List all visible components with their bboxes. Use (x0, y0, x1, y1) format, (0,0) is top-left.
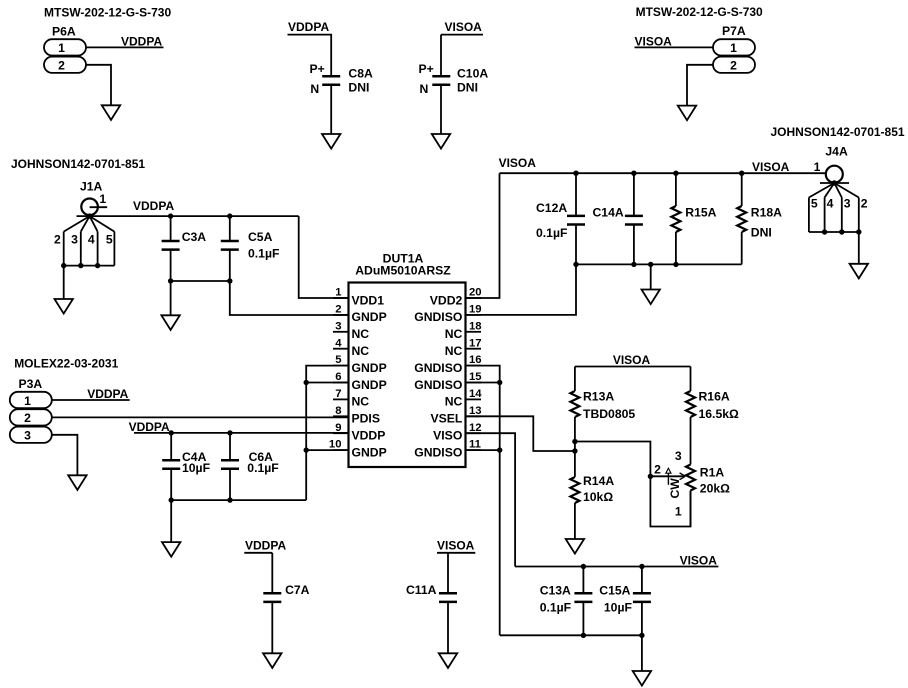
svg-text:JOHNSON142-0701-851: JOHNSON142-0701-851 (11, 157, 145, 171)
capacitor C4A (162, 460, 180, 469)
label J4A pin 4 (827, 197, 834, 211)
wire J1A stub pin5 (113, 232, 115, 266)
wire J4A fan pin2 (834, 183, 859, 198)
wire VISOA top rail (500, 172, 827, 174)
connector P3A part number label (14, 356, 118, 370)
wire P6A pin1 to VDDPA (86, 46, 164, 48)
svg-text:10: 10 (329, 439, 342, 451)
junction J1A (87, 213, 92, 218)
net label VDDPA at C7A (245, 539, 286, 553)
DUT1A pin 15 stub (466, 382, 482, 384)
wire P3A pin1 to VDDPA (52, 399, 130, 401)
svg-text:12: 12 (469, 422, 482, 434)
wire C5A top lead (229, 216, 231, 241)
wire VDDPA rail J1A to DUT (77, 215, 299, 217)
label DUT1A pin number 15 (469, 371, 482, 383)
net label VDDPA at C8A (288, 20, 329, 34)
label DUT1A pin number 16 (469, 354, 482, 366)
label DUT1A pin name NC pin 4 (352, 344, 370, 358)
connector J4A circle (826, 166, 843, 183)
ground at C10A (432, 134, 450, 149)
svg-text:R13A: R13A (583, 390, 614, 404)
DUT1A pin 11 stub (466, 449, 482, 451)
wire DUT pin11 GNDISO (466, 449, 500, 451)
connector J1A refdes (80, 180, 103, 194)
svg-text:2: 2 (335, 304, 341, 316)
wire VDDPA underline at C7A (244, 552, 272, 554)
label C10A refdes (457, 67, 488, 81)
connector P3A pin 3 (10, 427, 52, 443)
wire J4A bottom rail (809, 231, 859, 233)
label C7A refdes (285, 583, 310, 597)
svg-text:P+: P+ (419, 62, 434, 76)
DUT1A pin 16 stub (466, 365, 482, 367)
DUT1A pin 19 stub (466, 314, 482, 316)
ground at P3A (68, 475, 86, 490)
junction C14A bottom (631, 262, 636, 267)
label R1A pin 3 (675, 449, 682, 463)
junction GNDISO pin15 (497, 380, 502, 385)
junction C13A bottom (581, 633, 586, 638)
wire J1A stub pin2 (63, 232, 65, 266)
capacitor C3A (162, 241, 180, 250)
svg-text:17: 17 (469, 337, 482, 349)
svg-text:VISOA: VISOA (680, 554, 718, 568)
svg-text:VDDPA: VDDPA (121, 35, 162, 49)
label R18A DNI (751, 225, 772, 239)
svg-text:VISOA: VISOA (437, 539, 475, 553)
svg-text:PDIS: PDIS (352, 412, 380, 426)
ground at C3A (161, 315, 179, 330)
svg-text:GNDP: GNDP (352, 361, 387, 375)
wire C4A top lead (170, 433, 172, 460)
wire DUT pin6 GNDP (306, 382, 348, 384)
wire VISOA to P7A pin1 (635, 46, 714, 48)
connector J4A refdes (825, 144, 848, 158)
junction R15A top (673, 171, 678, 176)
label DUT1A pin number 4 (335, 337, 342, 349)
wire DUT pin12 VISO down (466, 433, 516, 566)
svg-text:DNI: DNI (457, 80, 478, 94)
net label VDDPA at P6A (121, 35, 162, 49)
label DUT1A pin name VDDP pin 9 (352, 429, 386, 443)
wire R13A top lead (574, 367, 576, 392)
DUT1A pin 14 stub (466, 398, 482, 400)
wire J4A fan pin4 (825, 183, 835, 198)
svg-text:P+: P+ (310, 62, 325, 76)
label R1A value (700, 481, 730, 495)
label C8A refdes (348, 67, 373, 81)
svg-text:GNDISO: GNDISO (414, 361, 462, 375)
capacitor C7A (263, 593, 281, 602)
connector P7A pin 2 (713, 57, 755, 73)
svg-text:16.5kΩ: 16.5kΩ (699, 407, 739, 421)
junction C3A bottom (168, 278, 173, 283)
label DUT1A pin name NC pin 17 (445, 344, 463, 358)
DUT1A pin 9 stub (333, 432, 349, 434)
label DUT1A pin name GNDP pin 5 (352, 361, 387, 375)
wire R13A bottom lead (574, 417, 576, 477)
connector P3A refdes (19, 377, 43, 391)
svg-text:R15A: R15A (685, 206, 716, 220)
label C14A refdes (593, 205, 624, 219)
wire VISOA divider rail (575, 366, 691, 368)
wire P7A pin2 to ground (687, 65, 713, 106)
svg-text:NC: NC (445, 344, 463, 358)
svg-text:3: 3 (675, 449, 682, 463)
junction C13A top (581, 564, 586, 569)
svg-text:R18A: R18A (751, 206, 782, 220)
wire GNDISO rail to ground (650, 264, 652, 289)
label DUT1A pin name VISO pin 12 (433, 429, 462, 443)
wire DUT pin10 GNDP (306, 449, 348, 451)
svg-text:C11A: C11A (406, 583, 437, 597)
svg-text:0.1µF: 0.1µF (540, 600, 571, 614)
svg-text:VDD1: VDD1 (352, 293, 385, 307)
ground at J1A (55, 299, 73, 314)
label R16A value (699, 407, 739, 421)
wire J1A to ground (63, 266, 65, 299)
net label VISOA at P7A (635, 35, 673, 49)
junction C15A bottom (639, 633, 644, 638)
junction J1A pin2 bottom (61, 263, 66, 268)
label DUT1A pin number 17 (469, 337, 482, 349)
junction R18A top (739, 171, 744, 176)
svg-text:NC: NC (352, 344, 370, 358)
capacitor C5A (221, 241, 239, 250)
DUT1A pin 4 stub (333, 348, 349, 350)
connector P7A part number label (636, 5, 763, 19)
junction C6A top (227, 430, 232, 435)
wire C15A bottom lead (641, 602, 643, 636)
svg-text:2: 2 (861, 197, 868, 211)
svg-text:VISO: VISO (433, 429, 462, 443)
svg-text:10kΩ: 10kΩ (583, 490, 613, 504)
label C3A refdes (182, 230, 207, 244)
ground at J4A (850, 264, 868, 279)
svg-text:VDDPA: VDDPA (288, 20, 329, 34)
wire J4A to ground (858, 232, 860, 264)
svg-text:R14A: R14A (583, 474, 614, 488)
wire J4A stub pin3 (841, 198, 843, 233)
svg-text:1: 1 (99, 192, 106, 206)
svg-text:7: 7 (335, 388, 341, 400)
junction VSEL node (572, 448, 577, 453)
ground at C11A (439, 653, 457, 668)
label DUT1A pin name GNDP pin 6 (352, 378, 387, 392)
label DUT1A pin number 18 (469, 320, 482, 332)
svg-text:4: 4 (827, 197, 834, 211)
label CW (668, 478, 682, 499)
label DUT1A pin number 3 (335, 320, 341, 332)
DUT1A pin 3 stub (333, 331, 349, 333)
svg-text:ADuM5010ARSZ: ADuM5010ARSZ (355, 264, 451, 278)
label J1A pin 5 (106, 232, 113, 246)
label R13A refdes (583, 390, 614, 404)
svg-text:1: 1 (675, 505, 682, 519)
label DUT1A pin number 19 (469, 304, 482, 316)
wire GNDP bottom rail (171, 499, 306, 501)
svg-text:NC: NC (352, 327, 370, 341)
IC DUT1A body (349, 283, 466, 468)
svg-text:GNDP: GNDP (352, 378, 387, 392)
wire P3A pin2 to DUT PDIS pin8 (52, 416, 349, 418)
svg-text:VDDPA: VDDPA (129, 420, 170, 434)
junction GNDP pin10 (304, 447, 309, 452)
label C6A value (247, 461, 278, 475)
resistor R14A (570, 477, 579, 503)
svg-text:3: 3 (24, 429, 31, 443)
svg-text:16: 16 (469, 354, 482, 366)
label DUT1A pin name NC pin 3 (352, 327, 370, 341)
net label VDDPA at J1A rail (133, 199, 174, 213)
label R1A pin 1 (675, 505, 682, 519)
wire R16A top lead (690, 367, 692, 392)
net label VISOA at bottom rail (680, 554, 718, 568)
svg-text:1: 1 (335, 287, 341, 299)
ground at C15A (633, 671, 651, 686)
svg-text:3: 3 (844, 197, 851, 211)
DUT1A pin 17 stub (466, 348, 482, 350)
label C10A plus (419, 62, 434, 76)
label DUT1A pin name VSEL pin 13 (430, 412, 462, 426)
label DUT1A pin number 13 (469, 405, 482, 417)
connector P3A pin 2 (10, 409, 52, 425)
connector P7A pin 1 (713, 39, 755, 55)
svg-text:2: 2 (654, 462, 661, 476)
junction J4A (832, 180, 837, 185)
wire C8A to ground (330, 85, 332, 134)
label R14A refdes (583, 474, 614, 488)
svg-text:VISOA: VISOA (499, 156, 537, 170)
svg-text:C14A: C14A (593, 205, 624, 219)
svg-text:VDDPA: VDDPA (87, 387, 128, 401)
wire R18A top lead (741, 173, 743, 206)
DUT1A pin 20 stub (466, 297, 482, 299)
wire C3A bottom lead (170, 249, 172, 281)
wire DUT pin13 VSEL to node (466, 416, 575, 451)
wire DUT pin5 GNDP down (306, 366, 348, 501)
wire C4A bottom lead (170, 469, 172, 501)
DUT1A pin 13 stub (466, 415, 482, 417)
net label VISOA at J4A (752, 160, 790, 174)
wire C12A bottom lead (575, 224, 577, 264)
capacitor C13A (574, 593, 592, 602)
svg-text:18: 18 (469, 320, 482, 332)
junction R15A bottom (673, 262, 678, 267)
label J1A pin 4 (88, 232, 95, 246)
junction R13A R16A node (572, 439, 577, 444)
wire J1A stub pin3 (80, 232, 82, 266)
label DUT1A pin name NC pin 14 (445, 395, 463, 409)
wire R1A wiper (650, 475, 684, 477)
junction C5A bottom (227, 278, 232, 283)
label C6A refdes (249, 450, 274, 464)
label DUT1A pin name NC pin 7 (352, 395, 370, 409)
junction C3A top (168, 213, 173, 218)
svg-text:MOLEX22-03-2031: MOLEX22-03-2031 (14, 356, 118, 370)
wire C7A to ground (271, 602, 273, 654)
label C5A value (248, 246, 279, 260)
label R18A refdes (751, 206, 782, 220)
svg-text:N: N (310, 82, 319, 96)
IC DUT1A part number (355, 264, 451, 278)
junction R1A wiper (648, 474, 653, 479)
svg-text:C13A: C13A (540, 584, 571, 598)
wire C14A top lead (633, 173, 635, 216)
connector J1A part number label (11, 157, 145, 171)
svg-text:P6A: P6A (52, 25, 76, 39)
label J1A pin 2 (54, 232, 61, 246)
wire GNDISO top rail (576, 263, 742, 265)
svg-text:VDDP: VDDP (352, 429, 386, 443)
svg-text:6: 6 (335, 371, 341, 383)
junction J1A pin3 bottom (78, 263, 83, 268)
label C8A minus (310, 82, 319, 96)
resistor R13A (570, 391, 579, 417)
label DUT1A pin number 12 (469, 422, 482, 434)
junction GNDISO pin11 (497, 447, 502, 452)
svg-text:1: 1 (58, 41, 65, 55)
junction J1A pin4 bottom (95, 263, 100, 268)
wire VISOA to C10A (440, 35, 442, 77)
junction J4A pin4 bottom (822, 229, 827, 234)
wire P3A pin3 to ground (52, 435, 78, 476)
label J4A pin 5 (811, 197, 818, 211)
ground at C8A (322, 134, 340, 149)
svg-text:GNDP: GNDP (352, 310, 387, 324)
net label VISOA at rail start (499, 156, 537, 170)
label DUT1A pin name GNDP pin 2 (352, 310, 387, 324)
junction C12A bottom (573, 262, 578, 267)
svg-text:5: 5 (106, 232, 113, 246)
net label VDDPA at P3A (87, 387, 128, 401)
label C12A refdes (536, 201, 567, 215)
label J1A pin 3 (71, 232, 78, 246)
svg-text:11: 11 (469, 439, 481, 451)
wire R13A node to wiper (575, 442, 651, 477)
svg-text:2: 2 (730, 59, 737, 73)
connector J4A part number label (771, 125, 905, 139)
label R16A refdes (699, 390, 730, 404)
svg-text:20: 20 (469, 287, 482, 299)
label DUT1A pin number 5 (335, 354, 341, 366)
label R15A refdes (685, 206, 716, 220)
capacitor C15A (633, 593, 651, 602)
wire DUT pin20 VDD2 to VISOA rail (466, 173, 500, 298)
wire C15A top lead (641, 567, 643, 594)
label C4A value (182, 461, 210, 475)
wire C13A bottom lead (582, 602, 584, 636)
wire J4A stub pin4 (824, 198, 826, 233)
svg-text:VISOA: VISOA (445, 20, 483, 34)
label DUT1A pin name GNDISO pin 15 (414, 378, 462, 392)
wire J4A fan pin3 (834, 183, 842, 198)
wire VISOA to C11A (447, 553, 449, 594)
capacitor C12A (567, 216, 585, 225)
label C12A value (536, 226, 567, 240)
label DUT1A pin number 20 (469, 287, 482, 299)
wire VDDPA to C7A (271, 553, 273, 594)
IC DUT1A refdes (383, 252, 424, 266)
wire J4A bottom bar (820, 182, 849, 184)
wire J4A stub pin5 (808, 198, 810, 233)
svg-text:14: 14 (469, 388, 482, 400)
DUT1A pin 10 stub (333, 449, 349, 451)
ground at P7A (678, 106, 696, 121)
junction C15A top (639, 564, 644, 569)
svg-text:MTSW-202-12-G-S-730: MTSW-202-12-G-S-730 (44, 6, 171, 20)
wire J1A fan pin3 (81, 216, 90, 232)
label DUT1A pin name GNDP pin 10 (352, 445, 387, 459)
wire VDDPA underline at C8A (288, 34, 333, 36)
ground at R14A (566, 539, 584, 554)
svg-text:5: 5 (335, 354, 341, 366)
wire J4A stub pin2 (858, 198, 860, 233)
ground at P6A (102, 105, 120, 120)
label DUT1A pin name GNDISO pin 16 (414, 361, 462, 375)
svg-text:C12A: C12A (536, 201, 567, 215)
label J4A pin 1 (814, 160, 821, 174)
label DUT1A pin number 9 (335, 422, 341, 434)
label DUT1A pin name GNDISO pin 11 (414, 445, 462, 459)
label DUT1A pin number 7 (335, 388, 341, 400)
svg-text:GNDISO: GNDISO (414, 378, 462, 392)
DUT1A pin 1 stub (333, 297, 349, 299)
label DUT1A pin name VDD2 pin 20 (430, 293, 463, 307)
label C13A value (540, 600, 571, 614)
label DUT1A pin number 8 (335, 405, 341, 417)
svg-text:20kΩ: 20kΩ (700, 481, 730, 495)
label R1A refdes (700, 465, 725, 479)
wire C5A bottom lead (229, 249, 231, 281)
svg-text:0.1µF: 0.1µF (536, 226, 567, 240)
capacitor C10A (432, 76, 450, 85)
wire C13A top lead (582, 567, 584, 594)
wire C6A top lead (229, 433, 231, 460)
DUT1A pin 5 stub (333, 365, 349, 367)
label C8A plus (310, 62, 325, 76)
wire R14A bottom lead (574, 503, 576, 539)
junction C6A bottom (227, 497, 232, 502)
wire J1A fan pin4 (90, 216, 98, 232)
CW direction arrow (666, 468, 671, 485)
label DUT1A pin number 14 (469, 388, 482, 400)
svg-text:C3A: C3A (182, 230, 207, 244)
net label VISOA at divider (613, 353, 651, 367)
wire C6A bottom lead (229, 469, 231, 501)
junction GNDP pin6 (304, 380, 309, 385)
label J4A pin 2 (861, 197, 868, 211)
label R14A value (583, 490, 613, 504)
wire DUT pin19 GNDISO to rail (466, 264, 577, 315)
svg-text:VISOA: VISOA (752, 160, 790, 174)
label DUT1A pin name NC pin 18 (445, 327, 463, 341)
label R13A value (583, 407, 635, 421)
svg-text:0.1µF: 0.1µF (248, 246, 279, 260)
wire VDDPA to C8A (330, 35, 332, 77)
svg-text:DNI: DNI (751, 225, 772, 239)
DUT1A pin 7 stub (333, 398, 349, 400)
DUT1A pin 18 stub (466, 331, 482, 333)
wire C11A to ground (447, 602, 449, 654)
svg-text:2: 2 (24, 411, 31, 425)
resistor R18A (737, 206, 746, 232)
ground at GNDISO rail (642, 290, 660, 305)
wire R15A top lead (675, 173, 677, 206)
svg-text:8: 8 (335, 405, 341, 417)
junction C12A top (573, 171, 578, 176)
